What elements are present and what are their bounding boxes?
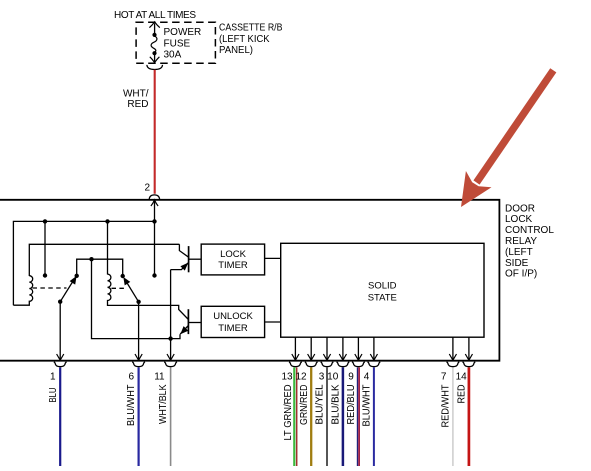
connector pin 12 (295, 362, 317, 383)
svg-text:3: 3 (319, 371, 325, 382)
svg-text:OF I/P): OF I/P) (505, 269, 537, 280)
connector pin 4 (364, 362, 381, 383)
svg-text:6: 6 (128, 371, 134, 382)
wire coil R top drop (107, 221, 109, 274)
svg-text:SIDE: SIDE (505, 258, 529, 269)
wire LT GRN/RED (pin 13) (283, 367, 297, 466)
svg-text:4: 4 (364, 371, 370, 382)
svg-text:BLU/WHT: BLU/WHT (126, 385, 137, 427)
relay coil L2 (unlock) (108, 274, 189, 319)
connector below fuse box (147, 65, 163, 70)
connector pin 13 (281, 362, 301, 383)
wire RED/WHT (pin 7) (441, 367, 453, 466)
connector pin 9 (348, 362, 365, 383)
switch S2 (unlock) (123, 277, 141, 304)
wire BLU/WHT (pin 4) (362, 367, 374, 466)
transistor Q1 (lock, PNP) (171, 244, 202, 272)
svg-text:DOOR: DOOR (505, 203, 535, 214)
wire solid-state output drop x=311.2 (310, 337, 312, 360)
svg-text:14: 14 (456, 371, 468, 382)
junction dots on bus (43, 219, 47, 223)
wire BLU/WHT (pin 6) (126, 367, 138, 466)
connector pin 14 (456, 362, 476, 383)
mechanical link L2 dashed (112, 287, 128, 289)
svg-text:CONTROL: CONTROL (505, 225, 554, 236)
svg-text:(LEFT KICK: (LEFT KICK (219, 34, 270, 45)
svg-text:13: 13 (281, 371, 293, 382)
svg-text:12: 12 (295, 371, 307, 382)
svg-text:30A: 30A (164, 50, 182, 61)
svg-text:WHT/: WHT/ (123, 89, 149, 100)
box UNLOCK TIMER (201, 306, 264, 337)
wire BLU/YEL (pin 3) (315, 367, 327, 466)
wire WHT/RED (red) (154, 70, 156, 194)
mechanical link L1 dashed (33, 287, 67, 289)
svg-text:RED/WHT: RED/WHT (441, 385, 452, 428)
pin 2 connector (144, 183, 159, 222)
svg-text:TIMER: TIMER (218, 323, 248, 334)
connector pin 1 (50, 362, 67, 383)
contact dot left-inner (75, 274, 79, 278)
wire lock output bus (29, 244, 179, 276)
wire BLU (pin 1) (48, 367, 60, 466)
svg-text:RED: RED (457, 385, 468, 404)
relay box outline (0, 200, 499, 361)
fuse POWER FUSE 30A (149, 22, 201, 63)
svg-text:LOCK: LOCK (220, 249, 247, 260)
svg-text:(LEFT: (LEFT (505, 247, 533, 258)
wire pin11 drop (lock emitter) (170, 270, 172, 360)
svg-text:HOT AT ALL TIMES: HOT AT ALL TIMES (114, 10, 196, 21)
junction dot rail bottom (168, 336, 172, 340)
label WHT/RED (123, 89, 149, 110)
box SOLID STATE (281, 243, 484, 337)
svg-text:RED/BLU: RED/BLU (346, 385, 357, 425)
svg-text:PANEL): PANEL) (219, 45, 253, 56)
annotation red arrow (461, 70, 553, 207)
contact dot left-outer (43, 273, 47, 277)
wire emitter/contact rail (77, 259, 123, 276)
wire solid-state output drop x=452.9 (452, 337, 454, 360)
connector pin 11 (154, 362, 177, 383)
wire RED/BLU (pin 9) (346, 367, 359, 466)
svg-text:GRN/RED: GRN/RED (299, 385, 310, 426)
wire WHT/BLK (pin 11) (158, 367, 170, 466)
svg-text:UNLOCK: UNLOCK (213, 311, 253, 322)
wire unlock timer to solid state (265, 321, 281, 323)
wire right contact drop (pin2 to contact) (154, 221, 156, 275)
wire solid-state output drop x=295.4 (294, 337, 296, 360)
junction dot rail top (89, 257, 93, 261)
svg-text:7: 7 (441, 371, 447, 382)
wire RED (pin 14) (457, 367, 469, 466)
wire GRN/RED (pin 12) (299, 367, 311, 466)
connector pin 3 (319, 362, 334, 383)
label DOOR LOCK CONTROL RELAY (505, 203, 554, 279)
contact dot right-inner (121, 274, 125, 278)
wire pin1 drop (59, 302, 61, 360)
svg-text:SOLID: SOLID (368, 280, 397, 291)
connector pin 10 (327, 362, 349, 383)
svg-text:BLU/YEL: BLU/YEL (315, 384, 326, 424)
svg-text:FUSE: FUSE (164, 38, 191, 49)
connector pin 6 (128, 362, 145, 383)
wire BLU/BLK (pin 10) (331, 367, 343, 466)
wire solid-state output drop x=373.9 (373, 337, 375, 360)
switch S1 (lock) (58, 276, 77, 304)
svg-text:RELAY: RELAY (505, 236, 537, 247)
svg-text:WHT/BLK: WHT/BLK (158, 384, 169, 424)
wire solid-state output drop x=342.9 (342, 337, 344, 360)
svg-text:10: 10 (327, 371, 339, 382)
wire left contact drop (44, 221, 46, 275)
transistor Q2 (unlock, NPN) (180, 309, 201, 334)
svg-text:2: 2 (144, 183, 150, 194)
relay coil L1 (lock) (13, 276, 32, 306)
wire solid-state output drop x=358.4 (357, 337, 359, 360)
box LOCK TIMER (201, 244, 264, 275)
svg-text:9: 9 (348, 371, 354, 382)
svg-text:LT GRN/RED: LT GRN/RED (283, 385, 294, 441)
label CASSETTE R/B (LEFT KICK PANEL) (219, 23, 283, 56)
svg-text:BLU/BLK: BLU/BLK (331, 384, 342, 424)
contact dot right-outer (152, 273, 156, 277)
svg-text:RED: RED (127, 99, 148, 110)
svg-text:TIMER: TIMER (218, 260, 248, 271)
wire solid-state output drop x=468.9 (468, 337, 470, 360)
wire bus B+ (from pin 2) (13, 221, 154, 305)
wire lock timer to solid state (265, 257, 281, 259)
svg-text:11: 11 (154, 371, 165, 382)
wire solid-state output drop x=327.0 (326, 337, 328, 360)
wire rail down-and-across (92, 259, 181, 338)
connector pin 7 (441, 362, 459, 383)
svg-text:CASSETTE R/B: CASSETTE R/B (219, 23, 283, 34)
svg-text:BLU/WHT: BLU/WHT (362, 385, 373, 427)
svg-text:STATE: STATE (368, 292, 397, 303)
svg-text:BLU: BLU (48, 388, 59, 403)
svg-text:1: 1 (50, 371, 56, 382)
wire pin6 drop (138, 302, 140, 360)
cassette R/B dashed box (136, 22, 215, 63)
svg-text:LOCK: LOCK (505, 214, 533, 225)
svg-text:POWER: POWER (164, 27, 202, 38)
